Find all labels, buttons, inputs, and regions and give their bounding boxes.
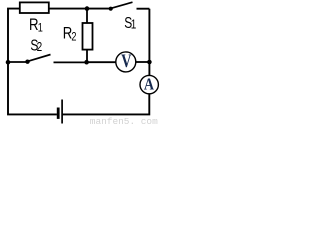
- node junction middle: [84, 60, 89, 65]
- wire: [8, 61, 28, 63]
- switch S2: [25, 55, 50, 64]
- label S2: [30, 36, 42, 55]
- label S1: [124, 14, 136, 32]
- wire: [148, 9, 150, 76]
- node junction right: [147, 60, 152, 65]
- battery: [57, 100, 62, 124]
- wire: [49, 8, 111, 10]
- svg-text:manfen5. com: manfen5. com: [90, 116, 158, 125]
- wire: [86, 50, 88, 63]
- wire: [54, 61, 87, 63]
- svg-text:2: 2: [71, 31, 76, 43]
- svg-text:1: 1: [131, 19, 137, 32]
- ammeter A: [140, 75, 158, 93]
- wire: [8, 9, 57, 115]
- svg-text:V: V: [121, 50, 131, 71]
- resistor R2: [83, 23, 93, 50]
- label R2: [63, 24, 77, 44]
- wire: [86, 9, 88, 23]
- wire: [135, 61, 149, 63]
- svg-text:1: 1: [38, 23, 43, 35]
- svg-text:2: 2: [37, 41, 43, 54]
- voltmeter V: [116, 50, 136, 72]
- resistor R1: [20, 2, 49, 13]
- switch S1: [109, 2, 150, 11]
- wire: [62, 94, 149, 115]
- label R1: [29, 16, 43, 35]
- svg-text:A: A: [144, 75, 154, 93]
- node junction left: [6, 60, 11, 65]
- node junction top: [85, 6, 90, 11]
- wire: [87, 61, 117, 63]
